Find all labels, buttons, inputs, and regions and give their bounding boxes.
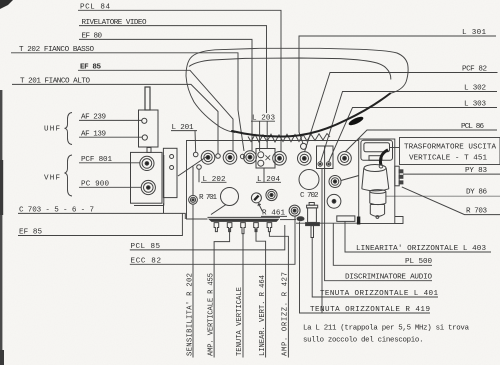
svg-text:VERTICALE - T 451: VERTICALE - T 451	[409, 155, 487, 163]
svg-text:VHF: VHF	[44, 175, 60, 183]
svg-text:sullo zoccolo del cinescopio.: sullo zoccolo del cinescopio.	[303, 337, 424, 345]
svg-text:R 701: R 701	[199, 194, 217, 202]
svg-text:La L 211 (trappola per 5,5 MHz: La L 211 (trappola per 5,5 MHz) si trova	[303, 325, 470, 333]
svg-text:DY 86: DY 86	[466, 189, 487, 197]
svg-text:C 702: C 702	[300, 192, 319, 200]
svg-text:TRASFORMATORE USCITA: TRASFORMATORE USCITA	[404, 144, 496, 152]
svg-text:UHF: UHF	[44, 126, 60, 134]
